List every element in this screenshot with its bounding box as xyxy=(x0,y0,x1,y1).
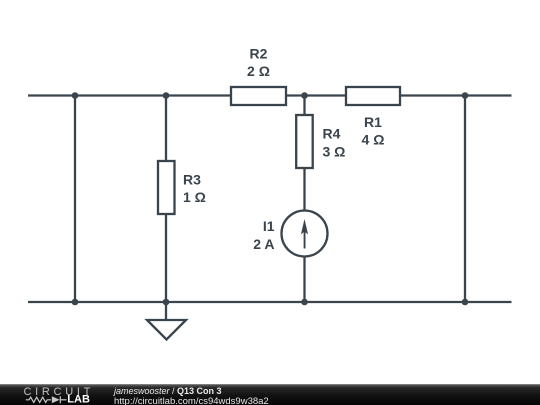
CircuitLab logo xyxy=(0,384,110,405)
footer url text xyxy=(114,397,269,405)
wire top rail left segment xyxy=(28,94,231,96)
svg-text:LAB: LAB xyxy=(67,394,90,405)
resistor R4 xyxy=(296,115,313,168)
wire R3 branch bottom xyxy=(165,214,167,302)
svg-text:I1: I1 xyxy=(263,218,275,234)
resistor R3 xyxy=(158,161,175,214)
svg-text:2 Ω: 2 Ω xyxy=(247,63,270,79)
svg-text:R3: R3 xyxy=(183,172,201,188)
svg-text:4 Ω: 4 Ω xyxy=(362,132,385,148)
svg-text:R4: R4 xyxy=(323,126,341,142)
node G bottom I1 junction xyxy=(301,299,308,306)
node H bottom-right junction xyxy=(462,299,469,306)
svg-text:3 Ω: 3 Ω xyxy=(323,143,346,159)
wire left vertical branch xyxy=(74,96,76,303)
footer title text xyxy=(114,387,222,396)
wire R3 branch top xyxy=(165,96,167,162)
wire R4 to I1 xyxy=(303,168,305,211)
I1 arrow xyxy=(301,219,308,249)
node B top R3 junction xyxy=(163,92,170,99)
wire top rail middle segment xyxy=(286,94,346,96)
resistor R2 xyxy=(231,87,286,105)
wire top rail right segment xyxy=(400,94,512,96)
wire right vertical branch xyxy=(464,96,466,303)
svg-text:1 Ω: 1 Ω xyxy=(183,189,206,205)
footer bar xyxy=(0,384,540,405)
node D top-right junction xyxy=(462,92,469,99)
svg-text:2 A: 2 A xyxy=(253,236,274,252)
ground xyxy=(147,320,186,340)
wire I1 to bottom rail xyxy=(303,257,305,303)
node E bottom-left junction xyxy=(72,299,79,306)
ground stub wire xyxy=(165,302,167,320)
current source I1 xyxy=(282,211,328,257)
wire bottom rail xyxy=(28,301,512,303)
svg-text:R1: R1 xyxy=(364,114,382,130)
wire R4 branch top xyxy=(303,96,305,116)
node A top-left junction xyxy=(72,92,79,99)
svg-text:R2: R2 xyxy=(250,45,268,61)
resistor R1 xyxy=(346,87,400,105)
node C top R4 junction xyxy=(301,92,308,99)
node F bottom ground junction xyxy=(163,299,170,306)
